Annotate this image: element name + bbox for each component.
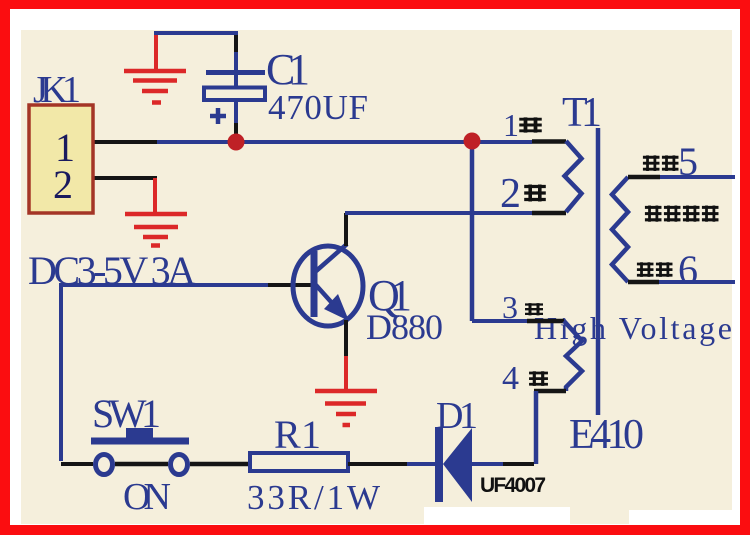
svg-text:2: 2 bbox=[53, 162, 73, 207]
svg-text:2: 2 bbox=[500, 171, 521, 217]
svg-text:C1: C1 bbox=[266, 45, 310, 94]
svg-text:E410: E410 bbox=[569, 412, 644, 458]
svg-text:470UF: 470UF bbox=[268, 88, 368, 127]
svg-text:D880: D880 bbox=[366, 307, 443, 347]
svg-text:4: 4 bbox=[502, 360, 519, 397]
svg-text:1: 1 bbox=[503, 107, 519, 143]
svg-text:UF4007: UF4007 bbox=[480, 474, 546, 497]
svg-text:R1: R1 bbox=[274, 412, 321, 457]
svg-text:High Voltage: High Voltage bbox=[534, 310, 732, 346]
svg-text:33R/1W: 33R/1W bbox=[247, 478, 380, 517]
svg-text:ON: ON bbox=[123, 476, 171, 518]
svg-text:6: 6 bbox=[678, 247, 698, 292]
